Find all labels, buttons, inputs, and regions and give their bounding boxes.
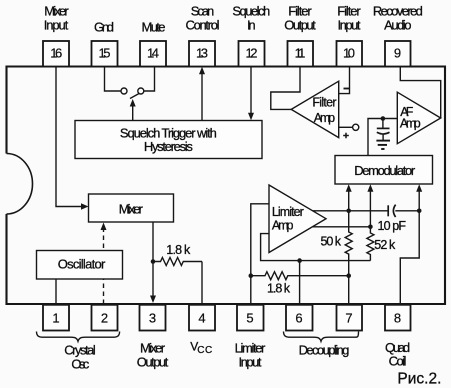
svg-text:16: 16 [50,45,62,60]
resistor 1.8k limiter [251,272,349,280]
pin 10 box [337,41,363,67]
svg-text:Decoupling: Decoupling [299,343,350,358]
switch wiper [130,93,140,98]
svg-text:Output: Output [284,17,316,32]
node lower line / 52k [368,225,373,230]
wire resistor to pin4 vcc [201,262,203,305]
svg-text:11: 11 [295,45,306,60]
svg-text:9: 9 [394,45,401,60]
svg-text:In: In [247,17,256,32]
resistor 50k [345,211,352,276]
wire limiter upper output line [313,210,389,212]
switch contact circle left [121,88,127,94]
wire pin11 zigzag to filter amp output [271,67,300,110]
svg-text:Hysteresis: Hysteresis [144,139,194,154]
oscillator box [37,251,123,280]
pin 12 box [239,41,265,67]
wire filter amp plus input [339,126,353,128]
svg-text:Audio: Audio [384,17,411,32]
wire squelch trigger to pin13 (scan control) arrow up [201,73,203,121]
amp labels [272,96,421,233]
svg-text:8: 8 [394,311,401,326]
svg-text:Output: Output [137,355,169,370]
wire pin15 to switch [105,67,122,92]
wire pin12 (squelch in) down arrow into squelch box [250,67,252,115]
pin 11 box [288,41,314,67]
capacitor AF bypass [382,119,384,128]
open terminal circle [353,124,359,130]
wire pin6 [299,261,301,305]
minus label filter amp [344,88,350,90]
svg-text:Mixer: Mixer [119,201,144,216]
resistor 52k [367,227,374,261]
svg-text:Gnd: Gnd [94,19,114,34]
capacitor 10pF [387,205,389,216]
pin 8 box [385,305,411,331]
svg-text:5: 5 [246,311,253,326]
svg-text:2: 2 [101,311,108,326]
svg-text:3: 3 [149,311,156,326]
squelch trigger box [75,121,262,159]
pin 2 box [92,305,118,331]
svg-text:Amp: Amp [272,219,294,233]
pin 14 box [140,41,166,67]
switch control arrow from squelch trigger [132,105,134,121]
svg-text:Coil: Coil [389,354,407,369]
node pin6 junction [297,258,302,263]
pin 1 box [43,305,69,331]
plus label filter amp [343,133,349,139]
resistor 1.8k mixer [153,258,202,266]
pin 13 box [189,41,215,67]
node mixer output junction [151,259,156,264]
brace crystal osc [37,332,120,342]
dashed wire pin2 to mixer (oscillator injection) [103,229,105,304]
wire pin9 to AF amp output [400,67,440,119]
wire pin8 quad coil route [400,211,419,305]
svg-text:Input: Input [239,355,262,370]
svg-text:CC: CC [197,345,212,356]
svg-text:Crystal: Crystal [64,343,96,358]
svg-text:Demodulator: Demodulator [354,163,416,178]
IC notch [7,154,33,215]
pin 4 box [189,305,215,331]
wire oscillator to pin1 [55,279,57,304]
svg-text:Mute: Mute [142,19,166,34]
wire mixer output to pin3 arrow down [152,222,154,298]
node upper line / 50k [346,209,351,214]
IC body outline U1 [7,67,446,305]
svg-text:Amp: Amp [314,111,335,125]
pin 7 box [337,305,363,331]
svg-text:7: 7 [345,311,352,326]
svg-text:13: 13 [196,45,208,60]
switch contact circle right [138,88,144,94]
node 1.8k / pin7 [346,273,351,278]
svg-text:Limiter: Limiter [272,205,304,219]
wire pin16 to mixer [56,67,82,207]
svg-text:52 k: 52 k [374,238,396,252]
svg-text:50 k: 50 k [321,234,342,248]
svg-text:10: 10 [343,45,355,60]
svg-text:4: 4 [198,311,205,326]
mixer box [89,194,174,222]
svg-text:Limiter: Limiter [235,341,266,356]
pin number labels [50,45,401,325]
top pin labels [44,4,423,35]
svg-text:Filter: Filter [312,96,336,110]
wire pin14 to switch [144,67,155,92]
pin 9 box [385,41,411,67]
op-amp filter amp [291,81,339,137]
wire demod arrow 1 [348,190,350,211]
wire demod arrow 2 [369,190,371,227]
svg-text:1.8 k: 1.8 k [166,243,191,257]
pin 3 box [140,305,166,331]
wire 50k to pin7 [348,276,350,305]
value labels [166,219,406,295]
op-amp limiter amp [269,185,326,253]
svg-text:6: 6 [295,311,302,326]
node AF input junction [381,116,386,121]
wire AF amp input / demodulator [368,119,397,156]
wire demod arrow 3 [418,190,420,211]
svg-text:Amp: Amp [400,117,421,131]
svg-text:Osc: Osc [71,357,89,372]
bottom pin labels [64,339,410,371]
wire pin10 to filter amp minus input [339,67,350,94]
svg-text:Рис.2.: Рис.2. [397,370,441,387]
demodulator box [335,156,433,185]
ground [376,140,390,142]
brace decoupling [284,332,359,342]
pin 16 box [43,41,69,67]
pin 6 box [286,305,313,331]
wire decoupling line pin6 [261,234,371,261]
svg-text:Mixer: Mixer [140,341,166,356]
svg-text:10 pF: 10 pF [378,219,407,233]
svg-text:Control: Control [186,17,220,32]
wire cap to quad coil node [395,210,419,212]
svg-text:Input: Input [44,17,69,32]
pin 15 box [92,41,118,67]
svg-text:12: 12 [246,45,258,60]
svg-text:15: 15 [99,45,111,60]
node pin5 / 1.8k [249,273,254,278]
node upper line / pin8 [417,209,422,214]
wire limiter input pin5 [251,204,269,305]
op-amp AF amp [397,92,440,144]
svg-text:1.8 k: 1.8 k [267,281,291,295]
svg-text:14: 14 [147,45,159,60]
svg-text:1: 1 [52,311,59,326]
svg-text:Oscillator: Oscillator [58,257,106,272]
block labels [58,125,416,271]
pin 5 box [237,305,264,331]
wire limiter lower output line [313,226,371,228]
svg-text:Input: Input [338,17,361,32]
